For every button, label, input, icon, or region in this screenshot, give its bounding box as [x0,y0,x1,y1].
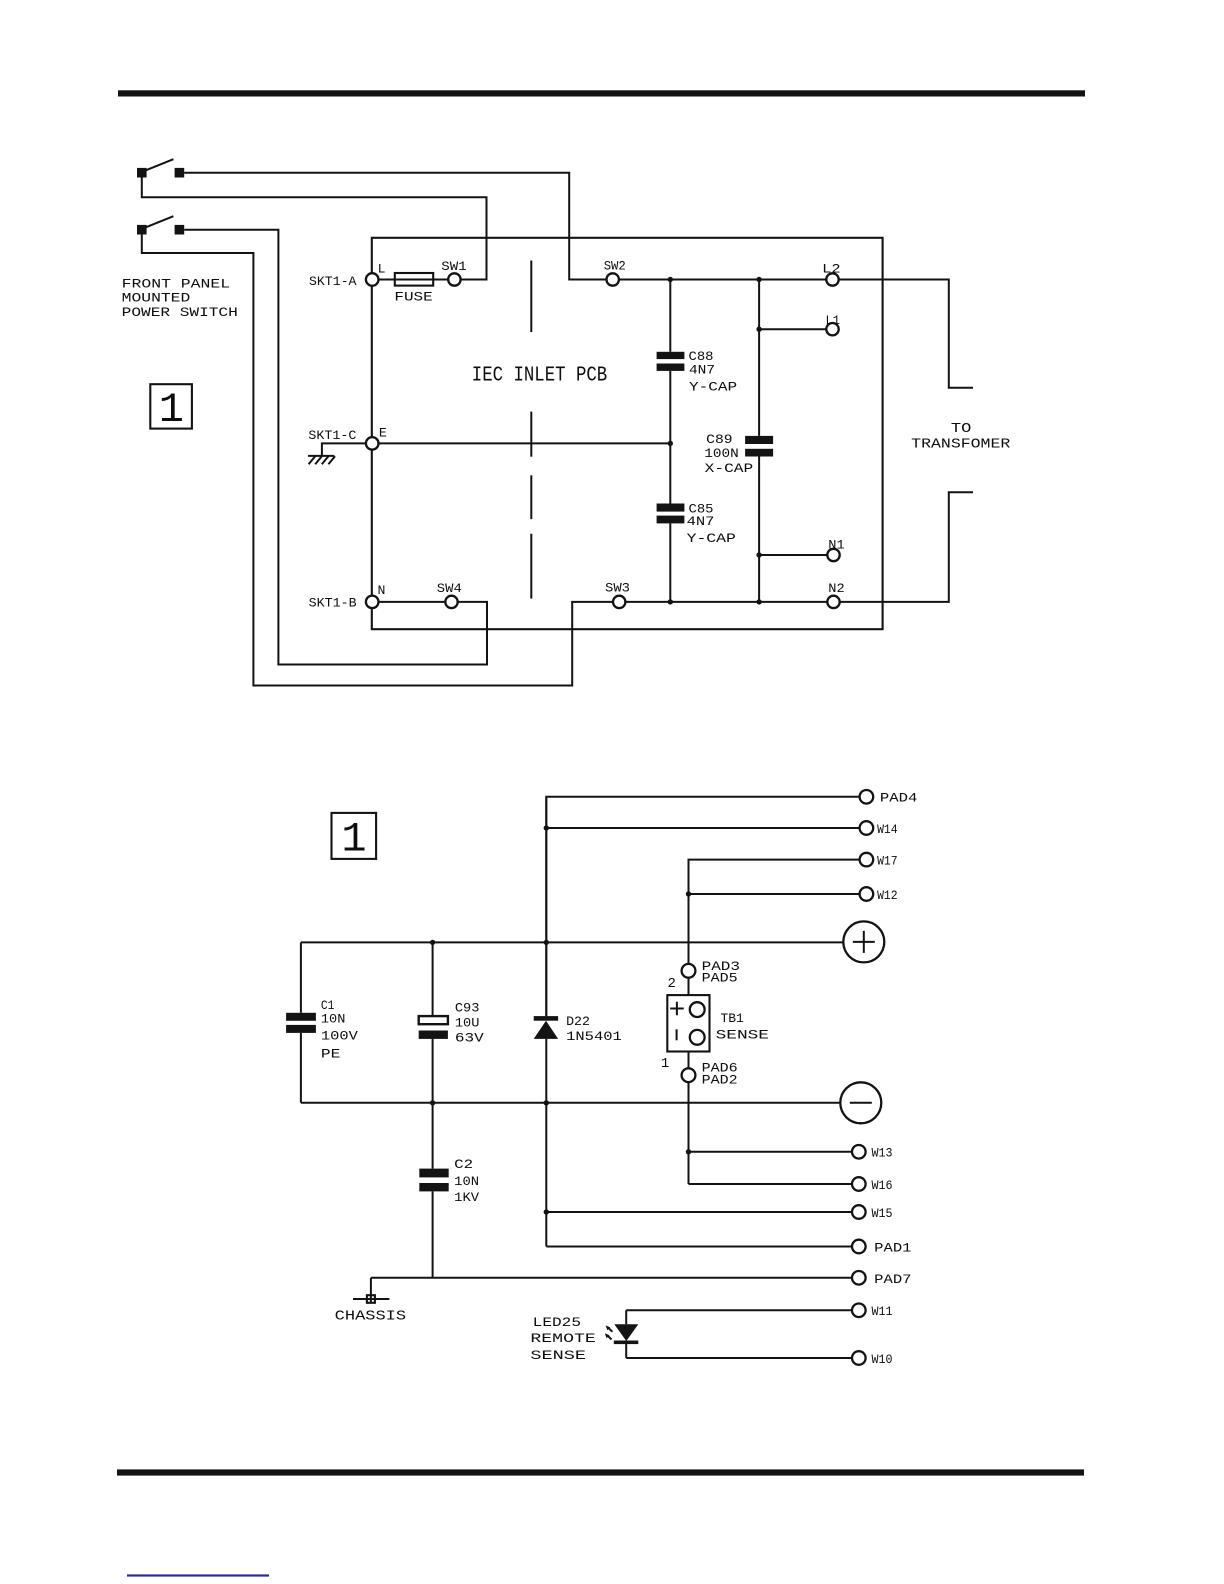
capacitor C89 100N X-CAP [704,280,773,602]
svg-text:X-CAP: X-CAP [705,461,754,476]
svg-text:63V: 63V [455,1030,484,1045]
svg-text:10U: 10U [455,1016,480,1031]
junction minus row at C93 [430,1100,435,1105]
earth ground symbol at SKT1-C [308,443,366,464]
svg-text:2: 2 [668,976,676,992]
svg-text:CHASSIS: CHASSIS [335,1308,406,1324]
svg-text:SW3: SW3 [605,580,630,595]
svg-text:4N7: 4N7 [687,514,715,529]
svg-text:W12: W12 [877,888,898,903]
bottom horizontal rule [117,1469,1084,1475]
svg-text:TO: TO [951,421,972,437]
terminal PAD1 [852,1240,912,1256]
blue footer underline [127,1574,269,1576]
wire PAD1 row [546,1246,852,1248]
terminal PAD4 [860,790,918,806]
wire to L1 [759,328,826,330]
svg-text:SENSE: SENSE [716,1028,770,1043]
svg-text:PAD4: PAD4 [880,791,918,806]
svg-text:N: N [378,583,386,598]
wire W12 row [689,893,860,895]
junction W13 [686,1149,691,1154]
terminal W13 [852,1145,893,1161]
svg-text:SKT1-A: SKT1-A [309,274,356,289]
svg-text:Y-CAP: Y-CAP [689,379,737,394]
svg-text:PE: PE [321,1046,341,1061]
svg-text:C89: C89 [706,432,732,447]
svg-text:4N7: 4N7 [689,362,715,377]
IEC inlet PCB outline box [372,238,883,629]
sheet reference box 1 (lower) [332,813,377,864]
svg-text:SW1: SW1 [441,259,466,274]
svg-text:W10: W10 [872,1352,893,1367]
terminal N2 [827,581,844,608]
wire W15 row [546,1211,852,1213]
svg-text:1: 1 [159,386,184,434]
terminal W16 [852,1177,893,1193]
wire N row SKT1-B to SW4 [379,601,446,603]
svg-text:PAD7: PAD7 [874,1272,911,1287]
capacitor C2 10N 1KV [419,1103,479,1278]
wire L2 to transformer bracket [839,280,973,388]
svg-text:1: 1 [661,1056,669,1072]
terminal block TB1 SENSE [667,995,769,1051]
svg-text:SW4: SW4 [437,581,462,596]
terminal W14 [860,821,898,837]
svg-text:SKT1-B: SKT1-B [309,595,357,610]
svg-text:L: L [378,261,386,276]
wire W10 row [626,1357,852,1359]
switch contact SW4 [437,581,462,608]
wire W14 row [546,827,859,829]
svg-text:SW2: SW2 [604,259,626,274]
svg-text:1KV: 1KV [454,1190,479,1205]
pad PAD3 PAD5 [668,959,741,992]
wire SW2 to L2 [619,279,826,281]
svg-text:Y-CAP: Y-CAP [687,531,736,546]
junction at C89 bottom [756,599,761,604]
socket SKT1-B [309,595,379,610]
junction plus row at D22 [544,940,549,945]
switch S1a pole contact [137,168,147,178]
terminal PAD7 [852,1271,912,1287]
wire PAD7 row [371,1277,852,1279]
junction W15 [544,1209,549,1214]
svg-text:C2: C2 [454,1157,473,1172]
svg-text:L1: L1 [826,313,841,328]
terminal W12 [860,887,898,903]
label TO TRANSFOMER [911,421,1011,453]
svg-text:FRONT PANEL: FRONT PANEL [122,276,230,291]
junction plus row at C93 [430,940,435,945]
wire plus output row [301,941,843,943]
svg-text:D22: D22 [566,1014,590,1029]
svg-text:POWER SWITCH: POWER SWITCH [122,305,238,320]
terminal W11 [852,1304,893,1320]
wire N2 to transformer bracket [840,492,973,602]
svg-text:REMOTE: REMOTE [530,1331,596,1346]
switch S1a blade [146,159,174,170]
switch S1b pole contact [137,225,147,235]
pad PAD6 PAD2 [661,1056,738,1087]
socket SKT1-C [308,425,387,449]
wire S1a throw to SW2 [184,173,606,280]
switch contact SW3 [605,580,630,608]
terminal minus output [840,1082,881,1123]
svg-text:MOUNTED: MOUNTED [122,291,191,306]
svg-text:N2: N2 [828,581,844,596]
terminal L1 [826,313,841,336]
wire SW3 to N2 [625,601,827,603]
svg-text:100N: 100N [704,446,739,461]
wire PAD4 row [546,797,859,1016]
terminal plus output [843,921,884,962]
capacitor C88 4N7 Y-CAP [657,280,738,444]
wire minus output row [301,1102,840,1104]
svg-text:10N: 10N [454,1174,479,1189]
svg-text:10N: 10N [321,1012,346,1027]
junction at C89 top [756,277,761,282]
junction at C85 bottom [668,599,673,604]
svg-text:TRANSFOMER: TRANSFOMER [911,437,1011,453]
wire W16 row [689,1183,853,1185]
wire W11 row [626,1309,852,1311]
svg-text:N1: N1 [828,537,844,552]
svg-text:LED25: LED25 [533,1315,581,1330]
wire S1b throw to SW4 [184,230,487,665]
svg-text:PAD1: PAD1 [874,1240,911,1255]
fuse FUSE [394,273,433,304]
svg-text:L2: L2 [822,262,840,277]
svg-text:FUSE: FUSE [394,289,432,304]
terminal W17 [860,853,898,869]
wire W17 row [689,860,860,964]
switch contact SW2 [604,259,626,286]
socket SKT1-A [309,273,379,289]
svg-text:W13: W13 [872,1146,893,1161]
label FRONT PANEL MOUNTED POWER SWITCH [122,276,238,320]
wire S1b pole to SW3 [142,235,613,686]
junction W14 [544,825,549,830]
junction minus row at D22 [544,1100,549,1105]
switch S1b blade [146,216,174,227]
wire L row SKT1-A to SW1 [379,279,449,281]
svg-text:1: 1 [341,816,366,864]
terminal W10 [852,1351,893,1367]
terminal W15 [852,1205,893,1221]
wire PAD6 to W13/W16 [688,1082,690,1184]
junction at L1 branch [756,327,761,332]
svg-text:C93: C93 [455,1000,480,1015]
svg-text:W14: W14 [877,822,898,837]
svg-text:E: E [379,425,387,440]
svg-text:100V: 100V [321,1029,358,1044]
sheet reference box 1 (upper) [150,384,192,434]
svg-text:W11: W11 [872,1304,893,1319]
switch S1a throw contact [175,168,185,178]
LED LED25 REMOTE SENSE [530,1310,638,1363]
junction at C88 top [668,277,673,282]
svg-text:SENSE: SENSE [530,1348,586,1363]
switch S1b throw contact [175,225,185,235]
switch contact SW1 [441,259,466,286]
junction at N1 branch [756,552,761,557]
svg-text:W15: W15 [872,1206,893,1221]
wire S1a pole to SW1 [142,178,487,280]
svg-text:TB1: TB1 [721,1011,744,1026]
svg-text:W16: W16 [872,1178,893,1193]
svg-text:IEC INLET PCB: IEC INLET PCB [472,364,607,387]
diode D22 1N5401 [534,797,622,1247]
capacitor C85 4N7 Y-CAP [657,443,736,602]
wire PAD3 to TB1 [688,978,690,995]
chassis ground symbol [335,1278,406,1325]
PCB dashed separator line [530,261,532,599]
svg-text:SKT1-C: SKT1-C [308,428,356,443]
wire E row SKT1-C to C88/C85 junction [379,442,671,444]
wire TB1 to PAD6 [688,1052,690,1069]
terminal N1 [827,537,844,561]
terminal L2 [822,262,840,286]
svg-text:1N5401: 1N5401 [566,1029,622,1044]
wire to N1 [759,554,827,556]
svg-text:PAD5: PAD5 [702,971,738,986]
junction at E row [668,441,673,446]
junction W12 [686,891,691,896]
capacitor C93 10U 63V electrolytic [419,942,484,1102]
svg-text:W17: W17 [877,853,898,868]
svg-text:PAD2: PAD2 [702,1072,738,1087]
top horizontal rule [118,90,1085,96]
wire W13 row [689,1151,853,1153]
capacitor C1 10N 100V PE [286,942,358,1102]
